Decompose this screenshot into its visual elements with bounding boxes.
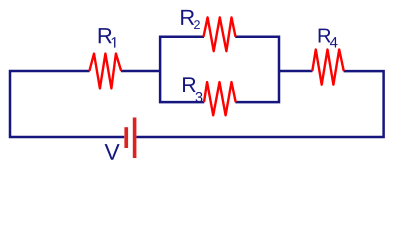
wire bottom-right + right side + top-right (battery to R4) bbox=[137, 71, 384, 137]
wire parallel box left half bbox=[160, 37, 204, 102]
wire parallel box right half bbox=[235, 37, 279, 102]
resistor R2 bbox=[204, 17, 236, 51]
label R2 "R" bbox=[181, 10, 194, 25]
resistor R3 bbox=[204, 82, 236, 115]
resistor R1 bbox=[89, 54, 121, 89]
label R2 subscript 2 bbox=[194, 20, 200, 29]
label R1 subscript 1 bbox=[112, 37, 116, 47]
label R3 "R" bbox=[183, 77, 196, 92]
resistor R4 bbox=[312, 50, 344, 85]
wire R1 to parallel box bbox=[121, 70, 160, 73]
wire parallel box to R4 bbox=[279, 70, 313, 73]
label R3 subscript 3 bbox=[196, 92, 203, 102]
label R4 subscript 4 bbox=[330, 37, 338, 47]
label R1 "R" bbox=[99, 28, 112, 43]
battery V short plate (negative) bbox=[124, 127, 128, 148]
battery V tall plate (positive) bbox=[133, 118, 137, 159]
label V (battery) bbox=[105, 144, 120, 160]
label R4 "R" bbox=[319, 29, 331, 43]
wire top-left + left side + bottom-left (outer loop to battery) bbox=[10, 71, 124, 137]
